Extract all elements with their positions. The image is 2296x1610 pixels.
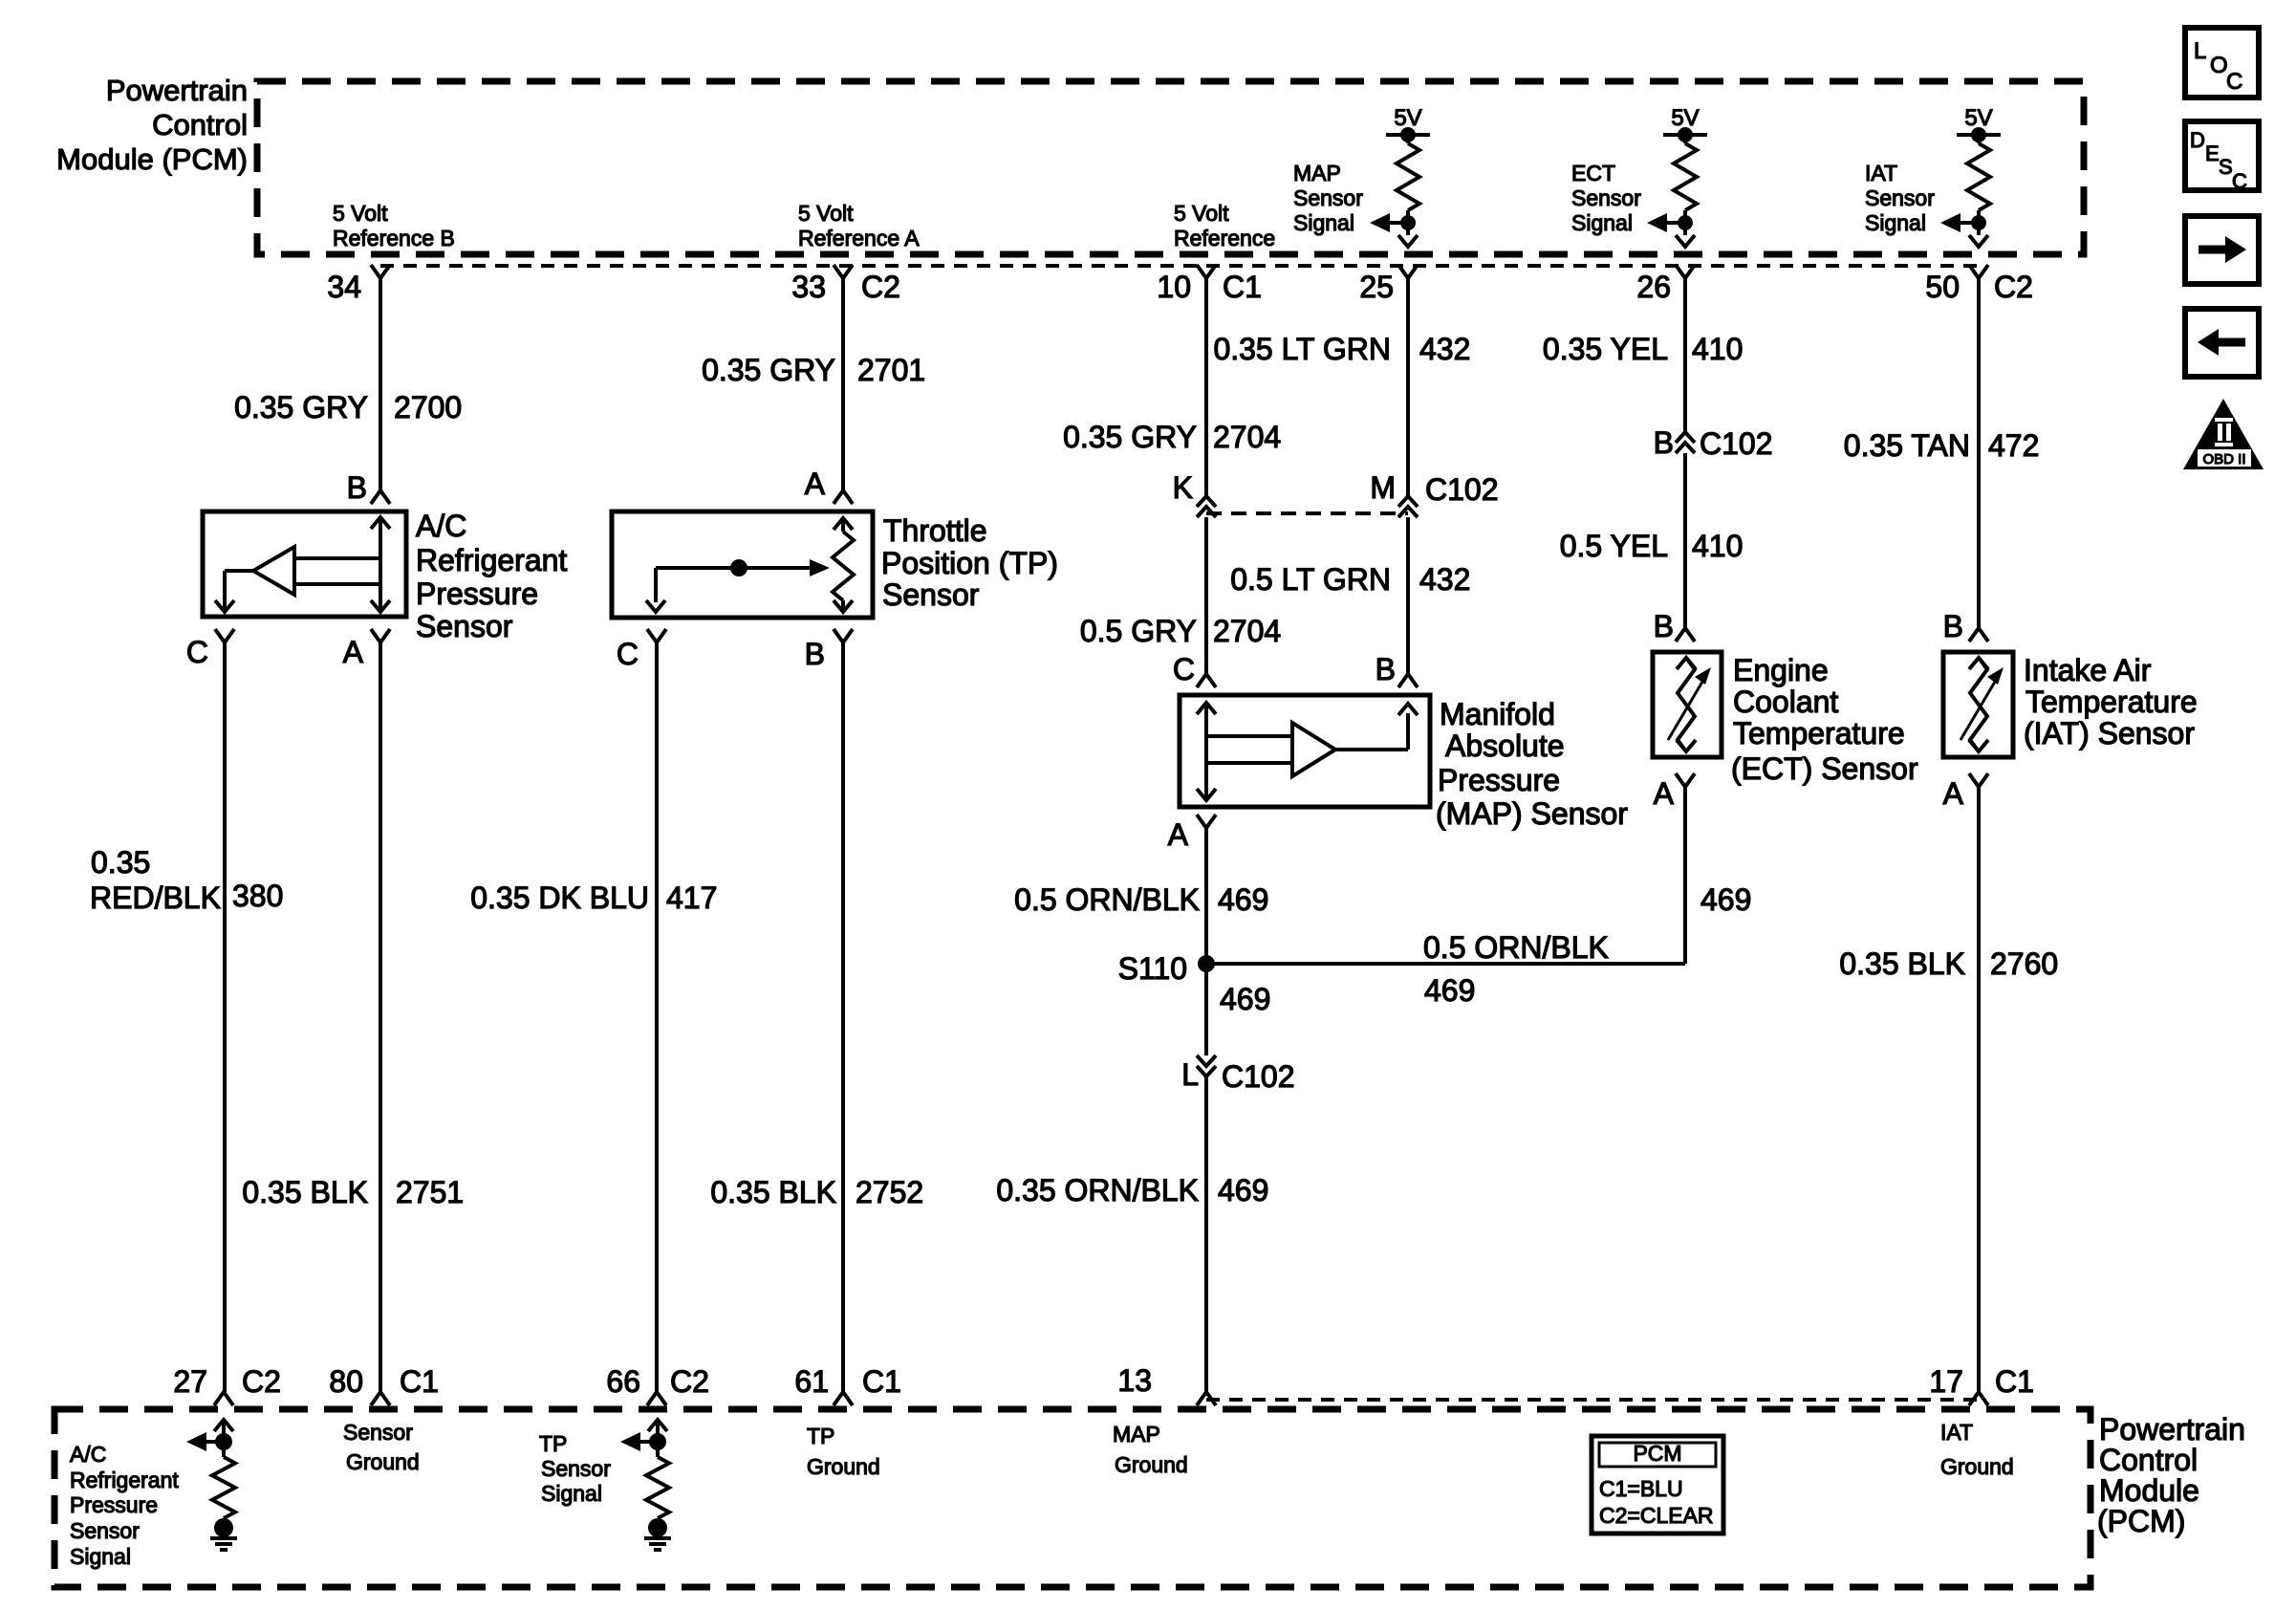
icon: DESC box xyxy=(2185,121,2259,193)
svg-text:C1: C1 xyxy=(1223,270,1262,304)
svg-text:432: 432 xyxy=(1419,332,1470,366)
svg-text:Sensor: Sensor xyxy=(541,1456,611,1481)
pin 80 C1 connector xyxy=(329,1364,439,1405)
pin 26 connector xyxy=(1636,265,1695,304)
svg-text:0.35 YEL: 0.35 YEL xyxy=(1543,332,1668,366)
svg-text:E: E xyxy=(2205,141,2220,165)
svg-text:A: A xyxy=(343,635,364,669)
wire 0.35 GRY 2700 (pin 34 to A/C pressure sensor pin B) xyxy=(379,278,382,490)
label: Powertrain Control Module (PCM) top-left xyxy=(56,74,248,176)
svg-text:50: 50 xyxy=(1925,270,1960,304)
wire 0.35 DK BLU 417 (TP sensor pin C to pin 66) xyxy=(655,642,659,1392)
label: 0.35 ORN/BLK 469 xyxy=(996,1173,1268,1207)
svg-text:Temperature: Temperature xyxy=(2025,685,2198,719)
svg-text:Sensor: Sensor xyxy=(416,609,513,643)
PCM module outline (bottom dashed box) xyxy=(54,1409,2090,1587)
svg-text:61: 61 xyxy=(794,1364,829,1399)
svg-text:2704: 2704 xyxy=(1213,614,1281,648)
IAT sensor pin B connector xyxy=(1943,609,1988,643)
svg-text:C2: C2 xyxy=(242,1364,281,1399)
label: IAT Ground xyxy=(1940,1420,2014,1479)
svg-text:Refrigerant: Refrigerant xyxy=(70,1468,179,1492)
svg-text:Refrigerant: Refrigerant xyxy=(416,543,567,577)
pin 50 C2 connector xyxy=(1925,265,2033,304)
svg-text:C1=BLU: C1=BLU xyxy=(1599,1476,1683,1501)
label: MAP Sensor Signal xyxy=(1293,161,1363,235)
svg-text:Throttle: Throttle xyxy=(883,513,986,548)
svg-text:Manifold: Manifold xyxy=(1440,697,1555,731)
svg-text:Control: Control xyxy=(2099,1443,2198,1477)
svg-text:A: A xyxy=(1654,776,1675,811)
label: Powertrain Control Module (PCM) bottom-right xyxy=(2097,1412,2245,1538)
svg-text:66: 66 xyxy=(606,1364,640,1399)
svg-text:Powertrain: Powertrain xyxy=(106,74,248,107)
svg-text:C: C xyxy=(617,637,639,671)
svg-text:A: A xyxy=(805,467,826,501)
label: 0.5 LT GRN 432 xyxy=(1230,562,1470,597)
svg-text:5 Volt: 5 Volt xyxy=(333,201,388,226)
svg-text:Pressure: Pressure xyxy=(70,1492,158,1517)
svg-text:0.35 BLK: 0.35 BLK xyxy=(242,1175,368,1209)
wire 0.35 ORN/BLK 469 (C102 L to pin 13) xyxy=(1204,1077,1208,1392)
label: Engine Coolant Temperature (ECT) Sensor xyxy=(1731,653,1918,786)
svg-text:MAP: MAP xyxy=(1293,161,1341,185)
PCM module outline (top dashed box) xyxy=(257,81,2084,254)
icon: forward arrow box xyxy=(2185,216,2259,284)
label: IAT Sensor Signal xyxy=(1865,161,1935,235)
svg-text:380: 380 xyxy=(232,879,283,913)
svg-text:RED/BLK: RED/BLK xyxy=(90,881,221,915)
wire 0.35 RED/BLK 380 (A/C sensor pin C to pin 27) xyxy=(223,642,227,1392)
label: 469 (ECT pin A wire) xyxy=(1700,882,1751,917)
label: 0.35 BLK 2760 xyxy=(1839,946,2058,981)
svg-text:IAT: IAT xyxy=(1940,1420,1973,1445)
svg-text:0.35 DK BLU: 0.35 DK BLU xyxy=(470,881,649,915)
label: MAP Ground xyxy=(1113,1422,1188,1477)
pin 61 C1 connector xyxy=(794,1364,901,1405)
svg-text:Signal: Signal xyxy=(1865,210,1926,235)
label: TP Sensor Signal xyxy=(539,1431,611,1506)
svg-text:C2=CLEAR: C2=CLEAR xyxy=(1599,1503,1714,1528)
svg-text:S110: S110 xyxy=(1118,951,1187,986)
svg-text:D: D xyxy=(2190,128,2205,152)
label: Manifold Absolute Pressure (MAP) Sensor xyxy=(1436,697,1628,831)
svg-text:C1: C1 xyxy=(400,1364,439,1399)
svg-text:2760: 2760 xyxy=(1990,946,2058,981)
wire 0.35 BLK 2751 (A/C sensor pin A to pin 80) xyxy=(379,642,382,1392)
svg-text:469: 469 xyxy=(1218,1173,1268,1207)
label: Throttle Position (TP) Sensor xyxy=(881,513,1058,612)
label: Sensor Ground xyxy=(343,1420,420,1474)
connector C102 pin L xyxy=(1181,1055,1294,1094)
svg-text:Sensor: Sensor xyxy=(70,1518,140,1543)
svg-text:0.5 YEL: 0.5 YEL xyxy=(1560,529,1668,563)
label: 0.35 RED/BLK 380 xyxy=(90,845,283,915)
A/C sensor pin B connector xyxy=(347,470,390,505)
svg-text:C1: C1 xyxy=(1995,1364,2034,1399)
svg-text:0.35 BLK: 0.35 BLK xyxy=(1839,946,1965,981)
label: 0.5 ORN/BLK 469 (above S110) xyxy=(1014,882,1268,917)
pin 66 C2 connector xyxy=(606,1364,709,1405)
label: A/C Refrigerant Pressure Sensor Signal xyxy=(70,1442,179,1569)
sensor box: A/C Refrigerant Pressure Sensor xyxy=(203,511,406,617)
svg-text:5 Volt: 5 Volt xyxy=(798,201,854,226)
svg-text:Ground: Ground xyxy=(346,1449,420,1474)
label: 0.5 YEL 410 xyxy=(1560,529,1744,563)
label: Intake Air Temperature (IAT) Sensor xyxy=(2024,653,2198,751)
svg-text:5V: 5V xyxy=(1671,105,1699,131)
wire 0.5 YEL 410 (C102 B to ECT sensor pin B) xyxy=(1683,453,1687,628)
pin 13 connector xyxy=(1117,1363,1216,1405)
icon: OBD II triangle xyxy=(2183,399,2264,469)
wire 0.35 YEL 410 (pin 26 to connector C102 pin B) xyxy=(1683,278,1687,432)
svg-text:A/C: A/C xyxy=(70,1442,106,1467)
svg-text:Module (PCM): Module (PCM) xyxy=(56,142,248,176)
svg-text:2704: 2704 xyxy=(1213,420,1281,454)
wire 0.35 BLK 2760 (IAT sensor pin A to pin 17) xyxy=(1977,787,1981,1392)
svg-text:Reference B: Reference B xyxy=(333,226,455,250)
label: ECT Sensor Signal xyxy=(1571,161,1641,235)
svg-text:B: B xyxy=(1654,425,1674,460)
connector C102 pin B xyxy=(1654,425,1773,461)
svg-text:C: C xyxy=(1173,652,1195,686)
svg-text:Control: Control xyxy=(152,108,248,141)
pin 34 connector xyxy=(327,265,390,304)
svg-text:0.5 LT GRN: 0.5 LT GRN xyxy=(1230,562,1391,597)
MAP sensor pin B connector xyxy=(1375,652,1418,687)
svg-text:Pressure: Pressure xyxy=(416,577,538,611)
svg-text:C102: C102 xyxy=(1222,1059,1295,1094)
svg-text:33: 33 xyxy=(791,270,826,304)
connector C102 pin M xyxy=(1370,470,1498,517)
ECT sensor pin B connector xyxy=(1654,609,1695,643)
wire 0.5 LT GRN 432 (C102 M to MAP sensor pin B) xyxy=(1406,517,1410,674)
svg-text:Sensor: Sensor xyxy=(882,577,980,612)
svg-text:469: 469 xyxy=(1220,982,1270,1016)
MAP sensor pin A connector xyxy=(1168,815,1216,852)
resistor: TP sensor signal input xyxy=(620,1420,671,1550)
label: 0.35 DK BLU 417 xyxy=(470,881,717,915)
A/C sensor pin C connector xyxy=(186,629,234,669)
svg-text:Ground: Ground xyxy=(1115,1452,1188,1477)
svg-text:(IAT) Sensor: (IAT) Sensor xyxy=(2024,716,2195,751)
svg-text:B: B xyxy=(1943,609,1963,643)
resistor: A/C refrigerant pressure sensor signal input xyxy=(186,1420,237,1550)
ECT sensor pin A connector xyxy=(1654,773,1695,811)
IAT sensor pin A connector xyxy=(1943,773,1988,811)
svg-text:M: M xyxy=(1370,470,1396,505)
svg-text:0.35 GRY: 0.35 GRY xyxy=(702,353,835,387)
svg-text:L: L xyxy=(1181,1057,1199,1092)
pin 25 connector xyxy=(1359,265,1418,304)
connector face line C1/C2 (fine dashed, below top PCM box) xyxy=(380,264,1979,268)
svg-text:13: 13 xyxy=(1117,1363,1152,1398)
connector C102 dashed line K-M xyxy=(1206,511,1408,515)
sensor box: Engine Coolant Temperature (ECT) Sensor xyxy=(1653,652,1722,757)
svg-text:L: L xyxy=(2194,38,2206,64)
svg-text:Position (TP): Position (TP) xyxy=(881,546,1058,580)
label: 0.35 BLK 2751 xyxy=(242,1175,464,1209)
svg-text:0.5 GRY: 0.5 GRY xyxy=(1080,614,1197,648)
svg-text:C2: C2 xyxy=(1994,270,2033,304)
svg-text:TP: TP xyxy=(807,1424,834,1448)
svg-text:Powertrain: Powertrain xyxy=(2099,1412,2245,1447)
MAP sensor pin C connector xyxy=(1173,652,1216,687)
svg-text:ECT: ECT xyxy=(1571,161,1615,185)
svg-text:2701: 2701 xyxy=(857,353,925,387)
sensor box: Intake Air Temperature (IAT) Sensor xyxy=(1943,652,2013,757)
svg-text:Signal: Signal xyxy=(541,1481,602,1506)
svg-text:C: C xyxy=(2232,169,2247,193)
svg-text:C102: C102 xyxy=(1425,472,1499,507)
svg-text:0.35 LT GRN: 0.35 LT GRN xyxy=(1213,332,1391,366)
svg-text:26: 26 xyxy=(1636,270,1671,304)
label: 0.35 YEL 410 xyxy=(1543,332,1743,366)
TP sensor pin B connector xyxy=(805,629,853,671)
svg-text:A/C: A/C xyxy=(416,509,466,543)
wire 0.5 ORN/BLK 469 (MAP sensor pin A to splice S110) xyxy=(1204,828,1208,964)
label: 0.5 GRY 2704 xyxy=(1080,614,1281,648)
label: 0.35 LT GRN 432 xyxy=(1213,332,1470,366)
svg-text:B: B xyxy=(805,637,825,671)
wire 0.35 BLK 2752 (TP sensor pin B to pin 61) xyxy=(841,642,845,1392)
svg-text:C1: C1 xyxy=(862,1364,901,1399)
svg-text:Reference: Reference xyxy=(1174,226,1275,250)
svg-text:A: A xyxy=(1168,817,1189,852)
resistor: IAT sensor signal 5V pull-up xyxy=(1940,105,2001,247)
svg-text:B: B xyxy=(1654,609,1674,643)
svg-text:410: 410 xyxy=(1692,529,1743,563)
wire 469 (S110 to connector C102 pin L) xyxy=(1206,964,1270,1055)
svg-text:TP: TP xyxy=(539,1431,567,1456)
svg-text:Pressure: Pressure xyxy=(1438,763,1560,797)
svg-text:0.35: 0.35 xyxy=(91,845,150,880)
svg-text:469: 469 xyxy=(1424,973,1475,1008)
svg-text:34: 34 xyxy=(327,270,361,304)
pin 33 C2 connector xyxy=(791,265,900,304)
svg-text:0.35 GRY: 0.35 GRY xyxy=(234,390,368,424)
pin 17 C1 connector xyxy=(1929,1364,2034,1405)
svg-text:C2: C2 xyxy=(670,1364,709,1399)
svg-text:0.35 ORN/BLK: 0.35 ORN/BLK xyxy=(996,1173,1199,1207)
pin 10 C1 connector xyxy=(1157,265,1262,304)
svg-text:C2: C2 xyxy=(861,270,900,304)
svg-text:0.5 ORN/BLK: 0.5 ORN/BLK xyxy=(1423,930,1609,965)
A/C sensor pin A connector xyxy=(343,629,390,669)
pin 27 C2 connector xyxy=(173,1364,281,1405)
resistor: ECT sensor signal 5V pull-up xyxy=(1647,105,1707,247)
sensor box: Manifold Absolute Pressure (MAP) Sensor xyxy=(1180,695,1430,807)
svg-text:5V: 5V xyxy=(1394,105,1421,131)
svg-text:469: 469 xyxy=(1218,882,1268,917)
connector face line C1 (fine dashed, pin 13 to pin 17) xyxy=(1206,1398,1979,1402)
label: 0.35 GRY 2704 xyxy=(1063,420,1281,454)
svg-text:S: S xyxy=(2219,155,2233,179)
splice S110 xyxy=(1118,951,1215,986)
icon: LOC box xyxy=(2185,28,2259,98)
svg-text:C: C xyxy=(2226,69,2242,95)
svg-text:0.35 GRY: 0.35 GRY xyxy=(1063,420,1197,454)
svg-text:Sensor: Sensor xyxy=(1571,185,1641,210)
svg-text:Signal: Signal xyxy=(1293,210,1354,235)
wire 0.35 TAN 472 (pin 50 to IAT sensor pin B) xyxy=(1977,278,1981,628)
svg-text:Signal: Signal xyxy=(70,1544,131,1569)
svg-text:27: 27 xyxy=(173,1364,207,1399)
svg-text:Engine: Engine xyxy=(1733,653,1829,687)
svg-text:17: 17 xyxy=(1929,1364,1963,1399)
label: 0.35 GRY 2701 xyxy=(702,353,925,387)
svg-text:Ground: Ground xyxy=(1940,1454,2014,1479)
svg-text:B: B xyxy=(347,470,367,505)
svg-text:Absolute: Absolute xyxy=(1445,729,1565,763)
svg-text:2700: 2700 xyxy=(394,390,462,424)
svg-text:Signal: Signal xyxy=(1571,210,1633,235)
svg-text:80: 80 xyxy=(329,1364,363,1399)
svg-text:0.35 BLK: 0.35 BLK xyxy=(710,1175,836,1209)
svg-text:0.5 ORN/BLK: 0.5 ORN/BLK xyxy=(1014,882,1200,917)
svg-text:5 Volt: 5 Volt xyxy=(1174,201,1229,226)
svg-text:Temperature: Temperature xyxy=(1733,716,1905,751)
wire 0.5 GRY 2704 (C102 K to MAP sensor pin C) xyxy=(1204,517,1208,674)
resistor: MAP sensor signal 5V pull-up xyxy=(1370,105,1430,247)
svg-text:25: 25 xyxy=(1359,270,1394,304)
svg-text:Ground: Ground xyxy=(807,1454,880,1479)
svg-text:10: 10 xyxy=(1157,270,1191,304)
label: TP Ground xyxy=(807,1424,880,1479)
label: 0.5 ORN/BLK 469 (on jumper) xyxy=(1423,930,1609,1008)
svg-text:(PCM): (PCM) xyxy=(2097,1504,2185,1538)
wire 0.35 GRY 2704 (pin 10 to connector C102 pin K) xyxy=(1204,278,1208,495)
svg-text:5V: 5V xyxy=(1964,105,1992,131)
svg-text:MAP: MAP xyxy=(1113,1422,1160,1447)
label: 0.35 GRY 2700 xyxy=(234,390,462,424)
svg-text:O: O xyxy=(2210,53,2228,78)
wire 0.5 ORN/BLK 469 (splice S110 to ECT sensor pin A) xyxy=(1206,787,1685,964)
svg-text:410: 410 xyxy=(1692,332,1743,366)
svg-text:C102: C102 xyxy=(1700,426,1773,461)
wire 0.35 GRY 2701 (pin 33 to TP sensor pin A) xyxy=(841,278,845,490)
svg-text:2751: 2751 xyxy=(396,1175,464,1209)
svg-text:Sensor: Sensor xyxy=(1865,185,1935,210)
label: A/C Refrigerant Pressure Sensor xyxy=(416,509,567,643)
svg-text:IAT: IAT xyxy=(1865,161,1897,185)
icon: back arrow box xyxy=(2185,309,2259,377)
svg-text:C: C xyxy=(186,635,208,669)
wire 0.35 LT GRN 432 (pin 25 to connector C102 pin M) xyxy=(1406,278,1410,495)
svg-text:469: 469 xyxy=(1700,882,1751,917)
svg-text:B: B xyxy=(1375,652,1396,686)
svg-text:472: 472 xyxy=(1988,428,2039,463)
svg-text:Sensor: Sensor xyxy=(1293,185,1363,210)
label: 0.35 TAN 472 xyxy=(1844,428,2040,463)
svg-text:Module: Module xyxy=(2099,1473,2199,1508)
svg-text:Reference A: Reference A xyxy=(798,226,920,250)
connector C102 pin K xyxy=(1173,470,1216,517)
svg-text:Intake Air: Intake Air xyxy=(2024,653,2152,687)
label: 5 Volt Reference xyxy=(1174,201,1275,250)
svg-text:(MAP) Sensor: (MAP) Sensor xyxy=(1436,796,1628,831)
svg-text:A: A xyxy=(1943,776,1964,811)
sensor box: Throttle Position (TP) Sensor xyxy=(612,511,873,618)
TP sensor pin C connector xyxy=(617,629,666,671)
svg-text:PCM: PCM xyxy=(1633,1441,1681,1466)
svg-text:(ECT) Sensor: (ECT) Sensor xyxy=(1731,751,1918,786)
svg-text:432: 432 xyxy=(1419,562,1470,597)
svg-text:417: 417 xyxy=(666,881,717,915)
svg-text:OBD II: OBD II xyxy=(2202,451,2245,468)
label: 5 Volt Reference A xyxy=(798,201,920,250)
svg-text:Coolant: Coolant xyxy=(1733,685,1838,719)
label: 5 Volt Reference B xyxy=(333,201,455,250)
PCM connector legend box xyxy=(1592,1436,1723,1534)
svg-text:K: K xyxy=(1173,470,1193,505)
svg-text:Sensor: Sensor xyxy=(343,1420,413,1445)
TP sensor pin A connector xyxy=(805,467,853,504)
label: 0.35 BLK 2752 xyxy=(710,1175,923,1209)
svg-text:2752: 2752 xyxy=(856,1175,923,1209)
svg-text:0.35 TAN: 0.35 TAN xyxy=(1844,428,1970,463)
